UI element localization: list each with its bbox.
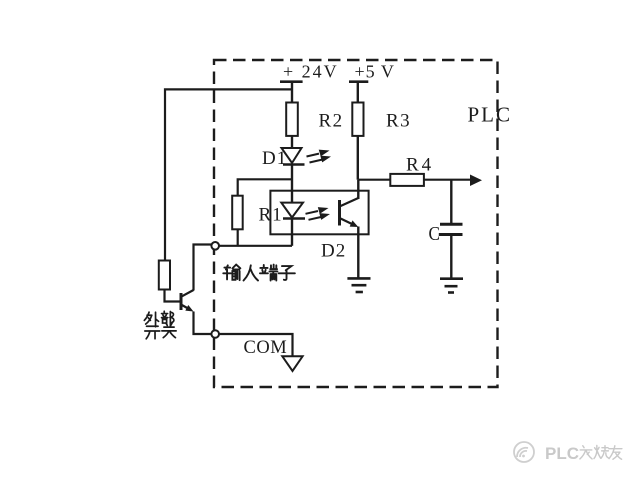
svg-text:R2: R2 — [319, 111, 344, 132]
wire R4 to output arrow — [424, 179, 472, 181]
svg-text:R4: R4 — [406, 155, 434, 176]
opto emission arrows — [306, 207, 331, 220]
COM label — [244, 338, 288, 358]
wire R2 to D1 — [291, 136, 293, 149]
transistor Q1 (external switch) — [180, 293, 183, 310]
svg-text:+5 V: +5 V — [355, 62, 395, 82]
output arrow — [470, 175, 482, 187]
terminal circle (input) — [211, 242, 219, 250]
wire COM terminal to ground triangle — [219, 334, 293, 356]
svg-text:PLC: PLC — [468, 103, 513, 127]
+5V rail bar — [349, 80, 368, 83]
svg-text:R3: R3 — [386, 111, 411, 132]
PLC label — [468, 103, 513, 127]
collector — [181, 290, 194, 297]
wire R3 down to phototransistor collector node — [357, 136, 359, 180]
optocoupler D2 box — [270, 191, 368, 235]
svg-text:PLC: PLC — [545, 444, 579, 463]
wire top terminal to opto cathode line — [219, 245, 292, 247]
wire R1 top branch — [238, 179, 292, 195]
external resistor (pull-up of switch) — [159, 261, 170, 290]
svg-text:+ 24V: + 24V — [283, 62, 339, 82]
wire resistor to transistor base — [165, 290, 181, 302]
resistor R3 — [352, 103, 363, 136]
PLC dashed boundary box — [214, 60, 498, 387]
optocoupler LED — [281, 203, 303, 218]
phototransistor of optocoupler — [338, 200, 341, 226]
wire junction down to capacitor C — [450, 180, 452, 225]
wire R1 bottom lead — [237, 229, 239, 246]
emitter with arrow — [181, 305, 189, 310]
resistor R4 — [390, 174, 424, 186]
terminal circle (COM) — [211, 330, 219, 338]
capacitor C — [440, 223, 463, 226]
wire left branch from +24V line — [165, 89, 292, 260]
wire +5V bar down to R3 — [357, 82, 359, 103]
resistor R2 — [286, 103, 298, 136]
wire collector up to node — [357, 180, 359, 199]
D1 emission arrows — [307, 150, 332, 163]
label 外部开关 (external switch) — [144, 311, 176, 339]
wire +24V bar down to R2 — [291, 82, 293, 103]
LED D1 — [262, 148, 287, 169]
resistor R1 — [232, 196, 243, 230]
wire D1 cathode down to opto LED — [291, 165, 293, 203]
node +5V label — [355, 62, 395, 82]
watermark text PLC发烧友 — [545, 444, 579, 463]
svg-text:D2: D2 — [321, 241, 346, 262]
ground (capacitor) — [440, 277, 463, 280]
svg-text:COM: COM — [244, 338, 288, 358]
wire collector node to R4 — [358, 179, 390, 181]
watermark logo — [514, 442, 534, 462]
COM ground triangle — [282, 356, 302, 371]
wire opto LED cathode down — [291, 219, 293, 246]
svg-text:C: C — [429, 223, 441, 245]
node +24V label — [283, 62, 339, 82]
wire capacitor to ground — [450, 235, 452, 279]
wire emitter down — [357, 227, 359, 279]
ground (phototransistor emitter) — [347, 277, 370, 280]
+24V rail bar — [280, 80, 303, 83]
label 输入端子 (input terminals) — [223, 265, 295, 281]
